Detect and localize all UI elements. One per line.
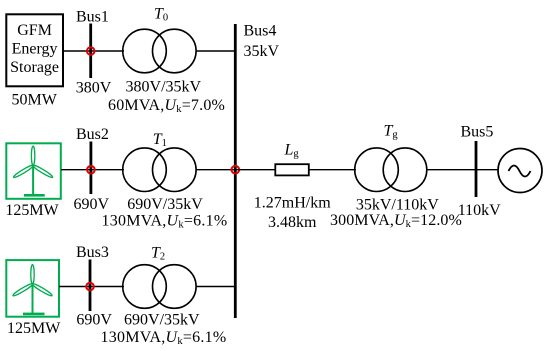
wire GFM box to T0 [63,50,124,52]
transformer T1 [123,148,196,192]
svg-text:130MVA,Uk=6.1%: 130MVA,Uk=6.1% [102,213,228,231]
wire T1 to Bus4 [196,169,236,171]
GFM energy storage unit box [6,14,63,86]
svg-text:690V: 690V [76,311,112,328]
svg-text:Bus5: Bus5 [461,124,494,141]
svg-text:35kV: 35kV [244,43,280,60]
measurement point (red circle) at Bus3 [86,283,94,291]
wire T2 to Bus4 [196,286,236,288]
measurement point (red circle) at Bus1 [87,47,95,55]
transformer T0 [123,29,196,73]
svg-text:690V: 690V [74,196,110,213]
svg-text:Bus3: Bus3 [76,244,109,261]
grid AC source [498,149,542,193]
svg-text:Storage: Storage [10,59,59,76]
svg-text:T1: T1 [153,131,167,149]
svg-text:Bus1: Bus1 [76,9,109,26]
wind turbine icon 2 [12,265,53,316]
svg-text:110kV: 110kV [458,202,501,219]
svg-text:690V/35kV: 690V/35kV [124,311,200,328]
svg-text:300MVA,Uk=12.0%: 300MVA,Uk=12.0% [330,212,462,230]
svg-text:T2: T2 [151,245,165,263]
measurement point (red circle) at Bus2 [87,166,95,174]
svg-text:GFM: GFM [17,22,52,39]
svg-text:50MW: 50MW [12,92,58,109]
svg-text:125MW: 125MW [5,202,59,219]
svg-text:380V/35kV: 380V/35kV [126,79,202,96]
svg-text:130MVA,Uk=6.1%: 130MVA,Uk=6.1% [101,329,227,347]
svg-text:690V/35kV: 690V/35kV [127,196,203,213]
wire wind2 to T2 [59,286,124,288]
svg-text:Bus2: Bus2 [76,126,109,143]
wind turbine generator 1 box [6,143,61,199]
bus Bus4 [234,24,237,318]
wire wind1 to T1 [61,169,124,171]
bus Bus1 [89,24,92,79]
svg-text:T0: T0 [154,6,168,24]
svg-text:1.27mH/km: 1.27mH/km [254,195,331,212]
wire Lg to Tg [309,169,356,171]
line inductor Lg [275,164,309,175]
svg-text:380V: 380V [76,80,112,97]
svg-text:Lg: Lg [284,142,300,160]
svg-text:Tg: Tg [384,123,399,141]
wind turbine icon 1 [13,146,54,197]
wire Bus4 to line Lg [236,169,275,171]
transformer T2 [123,265,196,309]
bus Bus3 [89,260,92,312]
wind turbine generator 2 box [6,260,59,317]
svg-text:60MVA,Uk=7.0%: 60MVA,Uk=7.0% [108,97,225,115]
wire T0 to Bus4 [196,50,236,52]
bus Bus5 [475,141,478,197]
wire Tg to grid source [426,169,499,171]
transformer Tg [355,148,427,192]
measurement point (red circle) at Bus4 junction [232,166,240,174]
bus Bus2 [90,142,93,195]
svg-text:3.48km: 3.48km [268,214,317,231]
svg-text:Bus4: Bus4 [244,23,277,40]
svg-text:125MW: 125MW [7,320,61,337]
svg-text:Energy: Energy [12,41,58,58]
